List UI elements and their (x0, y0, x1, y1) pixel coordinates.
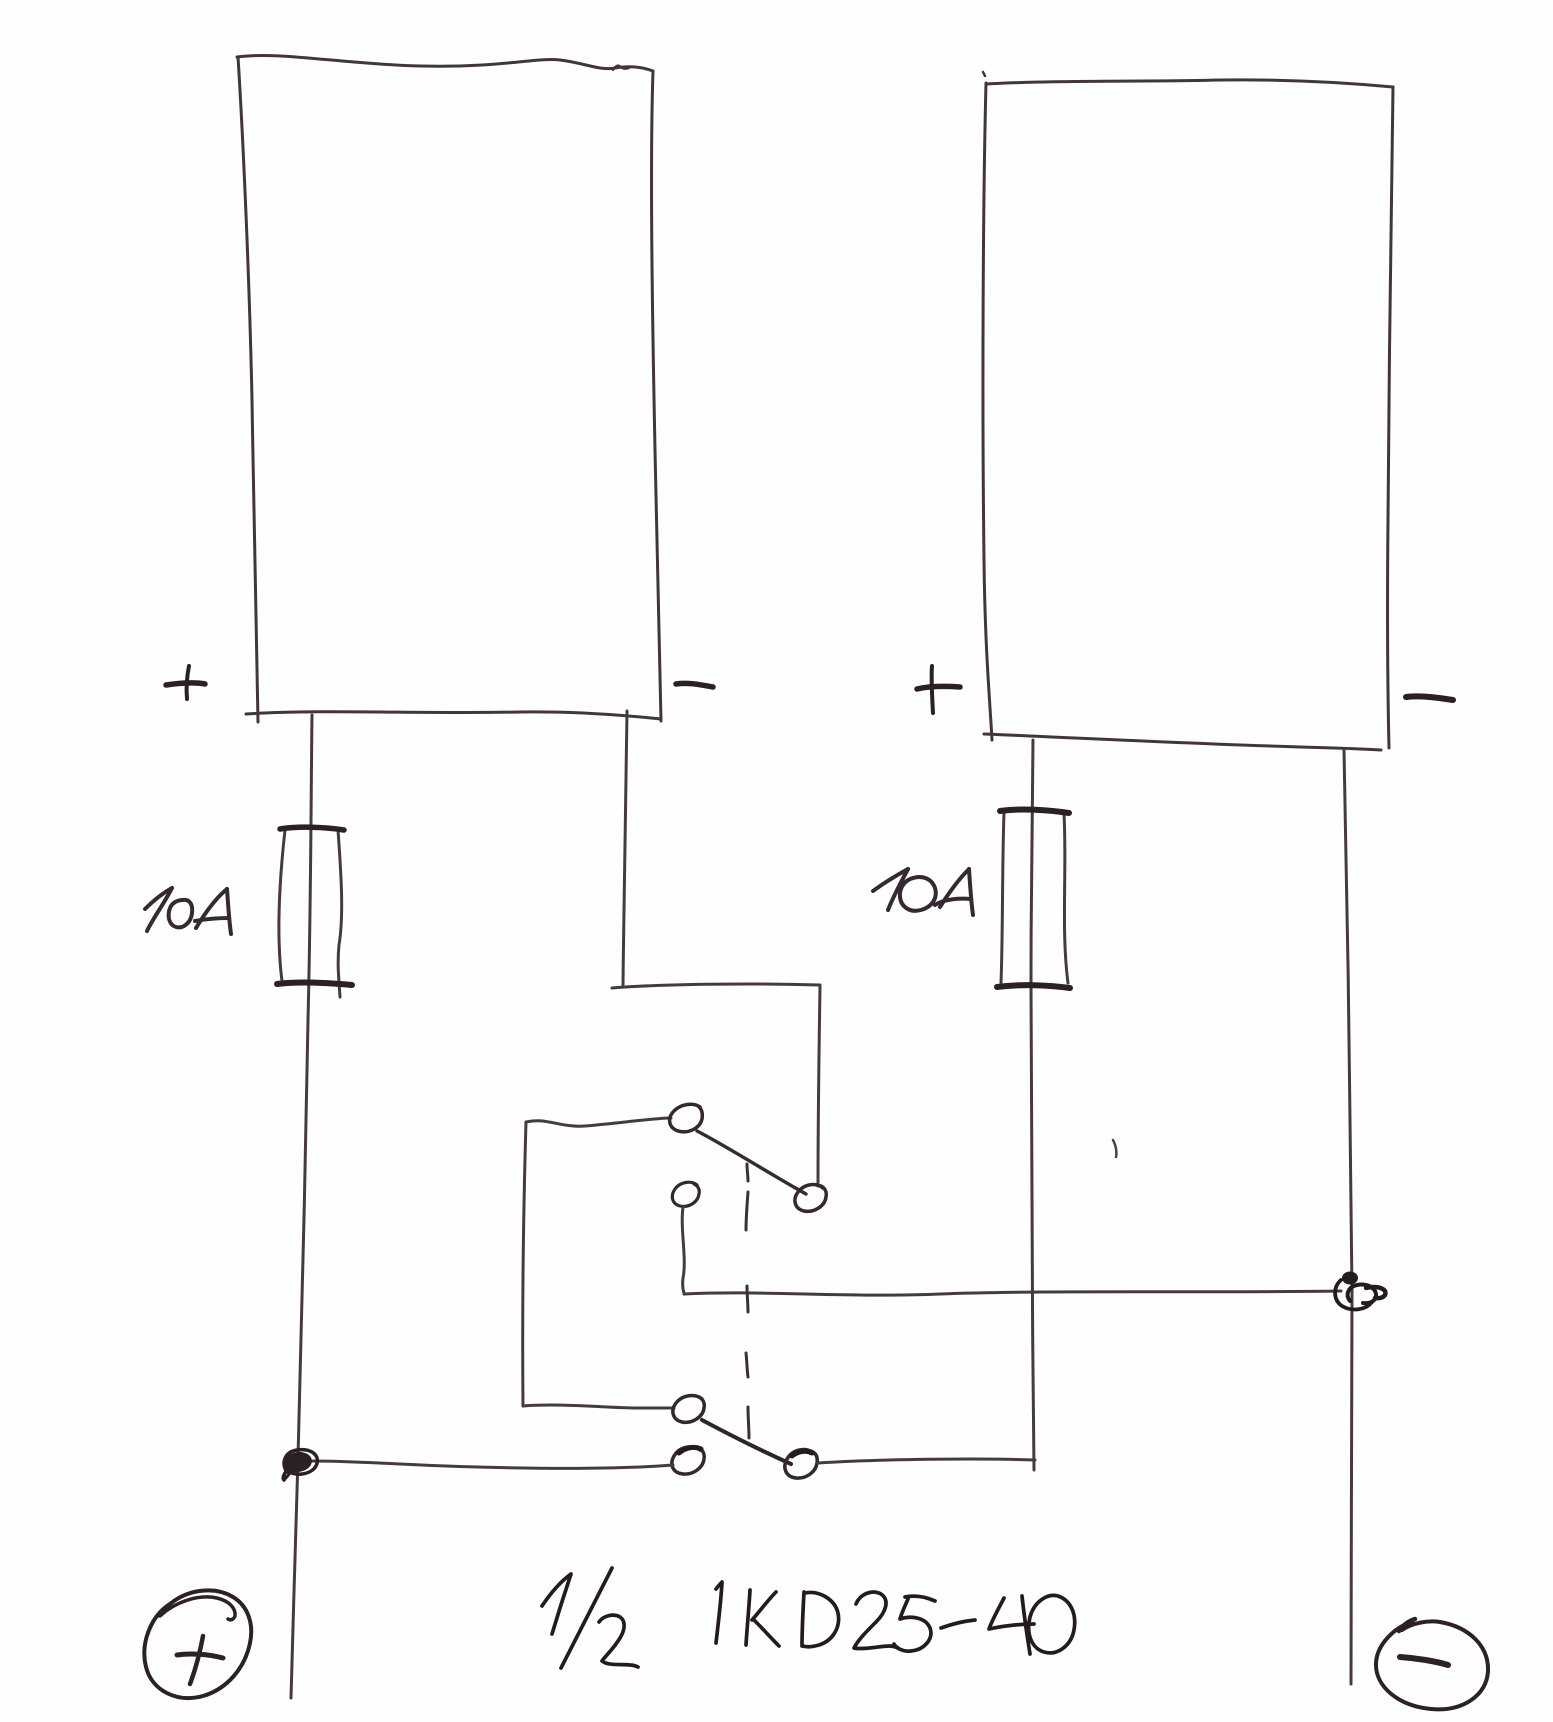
switch blade 1 (697, 1131, 806, 1194)
fuse F2 top cap (1000, 810, 1069, 813)
junction J1 (283, 1450, 318, 1480)
switch terminal D (672, 1447, 704, 1474)
fuse F2 bottom cap (997, 985, 1070, 988)
value label 10A (right fuse) (873, 869, 973, 915)
wire horizontal jog (612, 984, 820, 988)
fuse F1 top cap (280, 827, 344, 830)
+ label of BT2 (917, 666, 960, 713)
switch blade 2 (702, 1420, 791, 1464)
fuse F1 body (279, 830, 342, 997)
stray pen mark (1113, 1140, 1116, 1157)
wire from D to junction J1 (311, 1461, 673, 1468)
switch terminal A2 (673, 1396, 704, 1423)
wire from C to junction J2 (684, 1291, 1341, 1295)
+ label of BT1 (166, 666, 205, 699)
circled + output terminal (144, 1590, 251, 1698)
wire to terminal A1 (526, 1118, 671, 1126)
wire to terminal A2 (523, 1405, 674, 1408)
switch terminal A1 (670, 1104, 703, 1132)
junction J2 (1335, 1272, 1385, 1310)
label 1/2 IKD 25-40 (542, 1568, 1075, 1668)
fuse F1 bottom cap (277, 982, 352, 985)
wire down to switch terminal B1 (818, 987, 820, 1186)
battery BT2 (right rectangle) (983, 72, 1393, 750)
fuse F2 body (1001, 813, 1068, 983)
wire from BT2 - terminal down to junction J2 and bottom (1344, 750, 1352, 1684)
switch S1 left wire spine (523, 1122, 526, 1406)
dashed mechanical link (746, 1164, 749, 1438)
battery BT1 (left rectangle) (237, 55, 661, 722)
switch terminal C (middle) (672, 1182, 699, 1206)
switch terminal B2 (785, 1450, 817, 1479)
wire from BT1 + terminal down through fuse to junction and bottom (291, 715, 312, 1698)
wire from C down (682, 1207, 684, 1293)
- label of BT2 (1406, 696, 1453, 700)
wire from B2 to BT2 + wire corner (818, 1459, 1035, 1463)
- label of BT1 (676, 683, 713, 687)
wire from BT1 - terminal down (623, 711, 627, 986)
wire from BT2 + terminal down through fuse to corner (1031, 740, 1034, 1470)
switch terminal B1 (795, 1185, 826, 1212)
circled - output terminal (1376, 1619, 1488, 1709)
value label 10A (left fuse) (145, 888, 231, 934)
